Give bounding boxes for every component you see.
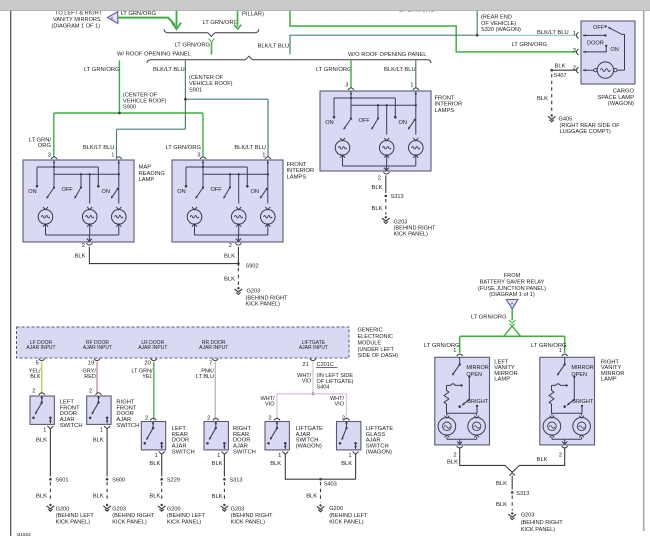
svg-text:VEHICLE ROOF): VEHICLE ROOF) <box>123 99 167 105</box>
svg-text:G200: G200 <box>56 506 70 512</box>
splice S601 <box>49 478 52 481</box>
svg-text:2: 2 <box>82 243 85 249</box>
svg-text:BLK: BLK <box>496 502 507 508</box>
svg-text:2: 2 <box>207 416 210 422</box>
svg-text:READING: READING <box>139 171 166 177</box>
svg-text:1: 1 <box>278 453 281 459</box>
svg-text:(DIAGRAM 1 of 1): (DIAGRAM 1 of 1) <box>489 292 535 298</box>
wire LT GRN/ORG second drop with arrow <box>236 11 238 27</box>
wire WHT/VIO split to both liftgate switches <box>277 394 347 420</box>
svg-text:BLK: BLK <box>36 493 47 499</box>
ground G200 (behind left kick panel) LF <box>49 504 51 506</box>
svg-text:S601: S601 <box>55 478 68 484</box>
svg-text:OPEN: OPEN <box>466 372 482 378</box>
svg-text:1: 1 <box>154 453 157 459</box>
svg-text:OFF: OFF <box>62 187 74 193</box>
splice S320 <box>476 34 479 37</box>
ground G203 (behind right kick panel) vanity <box>511 512 513 514</box>
left rear door ajar switch <box>141 422 165 450</box>
svg-text:S403: S403 <box>324 481 337 487</box>
svg-text:VEHICLE ROOF): VEHICLE ROOF) <box>189 81 233 87</box>
svg-text:LT GRN/ORG: LT GRN/ORG <box>203 20 239 26</box>
svg-text:(DIAGRAM 1 OF 1): (DIAGRAM 1 OF 1) <box>52 23 101 29</box>
svg-text:FRONT: FRONT <box>435 95 455 101</box>
svg-text:(WAGON): (WAGON) <box>608 101 634 107</box>
svg-text:RED: RED <box>84 374 96 380</box>
wire BLK/LT BLU to splice S320 <box>290 11 477 55</box>
svg-text:BLK: BLK <box>36 437 47 443</box>
svg-text:ORG: ORG <box>38 143 52 149</box>
svg-text:19: 19 <box>88 360 94 366</box>
svg-text:INTERIOR: INTERIOR <box>435 102 463 108</box>
svg-text:BLK: BLK <box>537 457 548 463</box>
svg-text:2: 2 <box>342 416 345 422</box>
wire LT GRN/ORG to splice S900 and lamp pins <box>118 60 120 113</box>
svg-text:LT BLU: LT BLU <box>196 374 214 380</box>
svg-text:LT GRN/ORG: LT GRN/ORG <box>175 43 211 49</box>
svg-text:SPACE LAMP: SPACE LAMP <box>597 95 634 101</box>
svg-text:VIO: VIO <box>302 378 312 384</box>
svg-text:PILLAR): PILLAR) <box>242 12 264 18</box>
ground G405 <box>551 114 553 116</box>
svg-text:INTERIOR: INTERIOR <box>287 168 315 174</box>
ground G203 (behind right kick panel) for map lamps <box>237 287 239 289</box>
GEM pin connectors 5 / 19 / 20 / 7 / 21 <box>39 359 45 361</box>
svg-text:BLK/LT BLU: BLK/LT BLU <box>537 30 569 36</box>
svg-text:2: 2 <box>378 175 381 181</box>
svg-text:OPEN: OPEN <box>571 372 587 378</box>
svg-text:BLK: BLK <box>270 461 281 467</box>
generic electronic module (GEM) <box>17 327 350 358</box>
svg-text:W/ ROOF OPENING PANEL: W/ ROOF OPENING PANEL <box>117 52 192 58</box>
svg-text:MAP: MAP <box>139 165 152 171</box>
splice S313 (roof lamp) <box>385 195 388 198</box>
svg-text:(BEHIND RIGHT: (BEHIND RIGHT <box>521 520 564 526</box>
svg-text:20: 20 <box>144 360 150 366</box>
svg-text:OFF: OFF <box>593 25 605 31</box>
svg-text:G203: G203 <box>247 288 261 294</box>
svg-text:KICK PANEL): KICK PANEL) <box>56 519 91 525</box>
svg-text:A: A <box>111 15 114 20</box>
svg-text:S900: S900 <box>123 105 136 111</box>
svg-text:ELECTRONIC: ELECTRONIC <box>358 334 393 340</box>
map reading lamp unit <box>23 160 134 242</box>
svg-text:2: 2 <box>89 388 92 394</box>
svg-text:BLK: BLK <box>447 459 458 465</box>
svg-text:7: 7 <box>209 360 212 366</box>
svg-text:(RIGHT REAR SIDE OF: (RIGHT REAR SIDE OF <box>560 123 621 129</box>
svg-text:VIO: VIO <box>265 401 275 407</box>
svg-text:VANITY MIRRORS: VANITY MIRRORS <box>53 17 101 23</box>
svg-text:SIDE OF DASH): SIDE OF DASH) <box>358 353 399 359</box>
splice S600 <box>106 478 109 481</box>
svg-text:BLK: BLK <box>149 461 160 467</box>
svg-text:FRONT: FRONT <box>287 162 307 168</box>
wire LT GRN/ORG from triangle A <box>118 18 177 27</box>
svg-text:LT GRN/ORG: LT GRN/ORG <box>121 11 157 17</box>
svg-text:BLK: BLK <box>75 254 86 260</box>
svg-text:1: 1 <box>410 83 413 89</box>
svg-text:LAMP: LAMP <box>494 377 510 383</box>
svg-text:MIRROR: MIRROR <box>571 365 593 371</box>
svg-text:S229: S229 <box>167 478 180 484</box>
svg-text:LUGGAGE COMPT): LUGGAGE COMPT) <box>560 129 611 135</box>
svg-text:KICK PANEL): KICK PANEL) <box>394 231 429 237</box>
cargo space lamp (wagon) unit <box>581 21 635 84</box>
svg-text:BLK: BLK <box>224 277 235 283</box>
svg-text:1: 1 <box>348 453 351 459</box>
splice S407 <box>550 69 553 72</box>
svg-text:GENERIC: GENERIC <box>358 328 383 334</box>
svg-text:BLK: BLK <box>496 481 507 487</box>
svg-text:5: 5 <box>36 360 39 366</box>
splice S313 (doors) <box>223 478 226 481</box>
splice S901 <box>184 98 187 101</box>
svg-text:ON: ON <box>28 189 36 195</box>
svg-text:S407: S407 <box>554 73 567 79</box>
svg-text:2: 2 <box>453 453 456 459</box>
svg-text:2: 2 <box>32 388 35 394</box>
splice S900 <box>118 112 121 115</box>
liftgate ajar switch (wagon) <box>265 422 289 450</box>
wire BLK roof lamp to splice S313 <box>385 176 387 194</box>
svg-text:S313: S313 <box>391 194 404 200</box>
svg-text:KICK PANEL): KICK PANEL) <box>329 519 364 525</box>
svg-text:(BEHIND LEFT: (BEHIND LEFT <box>329 513 368 519</box>
svg-text:3: 3 <box>345 83 348 89</box>
svg-text:3: 3 <box>573 48 576 54</box>
svg-text:AJAR INPUT: AJAR INPUT <box>299 345 328 351</box>
svg-text:S320 (WAGON): S320 (WAGON) <box>481 27 521 33</box>
svg-text:AJAR INPUT: AJAR INPUT <box>138 345 167 351</box>
cargo lamp bulb <box>597 62 613 78</box>
svg-text:S901: S901 <box>189 87 202 93</box>
svg-text:(BEHIND RIGHT: (BEHIND RIGHT <box>231 513 274 519</box>
svg-text:BLK: BLK <box>212 494 223 500</box>
svg-text:KICK PANEL): KICK PANEL) <box>112 519 147 525</box>
svg-text:BRIGHT: BRIGHT <box>572 399 593 405</box>
right rear door ajar switch <box>204 422 228 450</box>
brace merging LT GRN/ORG feeds <box>164 29 259 36</box>
svg-text:OFF: OFF <box>359 118 371 124</box>
svg-text:ON: ON <box>251 189 259 195</box>
svg-text:21: 21 <box>302 362 308 368</box>
svg-text:BLK/LT BLU: BLK/LT BLU <box>83 145 115 151</box>
svg-text:BLK: BLK <box>93 493 104 499</box>
svg-text:SWITCH: SWITCH <box>116 423 139 429</box>
svg-text:BLK: BLK <box>224 254 235 260</box>
svg-text:AJAR INPUT: AJAR INPUT <box>83 345 112 351</box>
wire LT GRN/ORG drop from top edge with arrow <box>175 11 178 27</box>
right front door ajar switch <box>87 396 111 424</box>
splice S403 <box>319 478 322 481</box>
svg-text:(CENTER OF: (CENTER OF <box>189 75 224 81</box>
svg-text:BLK/LT BLU: BLK/LT BLU <box>258 44 290 50</box>
ground G200 (behind left kick panel) LR <box>161 504 163 506</box>
front interior lamps unit (console) <box>172 160 283 242</box>
svg-text:AJAR INPUT: AJAR INPUT <box>199 345 228 351</box>
svg-text:S404: S404 <box>317 385 330 391</box>
svg-text:2: 2 <box>229 243 232 249</box>
svg-text:LAMP: LAMP <box>139 177 155 183</box>
svg-text:KICK PANEL): KICK PANEL) <box>246 302 281 308</box>
svg-text:BLK: BLK <box>30 374 41 380</box>
right vanity mirror lamp <box>540 357 595 445</box>
svg-text:BLK: BLK <box>341 461 352 467</box>
svg-text:1: 1 <box>217 453 220 459</box>
svg-text:BLK: BLK <box>372 185 383 191</box>
svg-text:G203: G203 <box>112 506 126 512</box>
svg-text:BRIGHT: BRIGHT <box>467 399 488 405</box>
svg-text:S313: S313 <box>229 478 242 484</box>
front interior lamps unit (w/o roof opening panel) <box>320 91 431 171</box>
svg-text:I41553: I41553 <box>17 532 31 537</box>
svg-text:AJAR INPUT: AJAR INPUT <box>26 345 55 351</box>
svg-text:DOOR: DOOR <box>587 41 604 47</box>
svg-text:3: 3 <box>48 152 51 158</box>
svg-text:OF VEHICLE): OF VEHICLE) <box>481 21 516 27</box>
svg-text:BLK: BLK <box>149 493 160 499</box>
svg-text:(BEHIND LEFT: (BEHIND LEFT <box>167 513 206 519</box>
svg-text:ON: ON <box>177 189 185 195</box>
svg-text:KICK PANEL): KICK PANEL) <box>167 519 202 525</box>
svg-text:S600: S600 <box>112 478 125 484</box>
svg-text:W/O ROOF OPENING PANEL: W/O ROOF OPENING PANEL <box>348 52 427 58</box>
ground G203 (behind right kick panel) RR <box>223 504 225 506</box>
svg-text:CARGO: CARGO <box>613 89 635 95</box>
ground G203 (behind right kick panel) roof lamp <box>385 216 387 218</box>
svg-text:(FUSE JUNCTION PANEL): (FUSE JUNCTION PANEL) <box>478 286 546 292</box>
svg-text:BLK/LT BLU: BLK/LT BLU <box>153 67 185 73</box>
connector triangle A from battery saver relay <box>506 300 518 309</box>
svg-text:1: 1 <box>43 428 46 434</box>
svg-text:1: 1 <box>100 428 103 434</box>
svg-text:ON: ON <box>325 120 333 126</box>
svg-text:LAMPS: LAMPS <box>435 108 455 114</box>
wire LT GRN/ORG relay feed splitting to both vanity lamps <box>511 309 513 321</box>
brace alternatives with / without roof opening panel <box>147 56 431 63</box>
svg-text:LT GRN/ORG: LT GRN/ORG <box>165 145 201 151</box>
svg-text:SWITCH: SWITCH <box>172 450 195 456</box>
svg-text:LT GRN/ORG: LT GRN/ORG <box>471 315 507 321</box>
svg-text:(BEHIND LEFT: (BEHIND LEFT <box>56 513 95 519</box>
wire LT GRN/ORG merged net stub <box>209 39 215 43</box>
svg-text:(BEHIND RIGHT: (BEHIND RIGHT <box>112 513 155 519</box>
svg-text:A: A <box>511 301 514 306</box>
svg-text:2: 2 <box>268 416 271 422</box>
svg-text:VIO: VIO <box>335 401 345 407</box>
wire BLK/LT BLU to front interior lamps pin 1 <box>415 60 417 88</box>
svg-text:YEL: YEL <box>142 374 152 380</box>
svg-text:BATTERY SAVER RELAY: BATTERY SAVER RELAY <box>480 279 545 285</box>
ground G200 (behind left kick panel) liftgate <box>319 504 321 506</box>
svg-text:BLK: BLK <box>555 64 566 70</box>
svg-text:(REAR END: (REAR END <box>481 15 512 21</box>
svg-text:TO LEFT & RIGHT: TO LEFT & RIGHT <box>55 10 103 16</box>
splice S404 <box>312 393 315 396</box>
svg-text:BLK/LT BLU: BLK/LT BLU <box>234 145 266 151</box>
svg-text:G405: G405 <box>559 116 573 122</box>
svg-text:LAMPS: LAMPS <box>287 175 307 181</box>
wire BLK liftgate switches join to splice S403 <box>285 454 355 479</box>
svg-text:KICK PANEL): KICK PANEL) <box>521 527 556 533</box>
svg-text:OFF: OFF <box>211 187 223 193</box>
connector triangle A to left &amp; right vanity mirrors <box>108 12 118 24</box>
svg-text:ON: ON <box>399 120 407 126</box>
svg-text:(WAGON): (WAGON) <box>366 450 392 456</box>
wire BLK vanity lamps join <box>460 447 565 472</box>
svg-text:LAMP: LAMP <box>601 377 617 383</box>
svg-text:G203: G203 <box>521 512 535 518</box>
svg-text:1: 1 <box>453 348 456 354</box>
svg-text:(CENTER OF: (CENTER OF <box>123 92 158 98</box>
svg-text:2: 2 <box>559 453 562 459</box>
svg-text:1: 1 <box>111 152 114 158</box>
svg-text:LT GRN/ORG: LT GRN/ORG <box>512 42 548 48</box>
svg-text:LT GRN/ORG: LT GRN/ORG <box>316 67 352 73</box>
svg-text:(UNDER LEFT: (UNDER LEFT <box>358 347 395 353</box>
svg-text:SWITCH: SWITCH <box>233 450 256 456</box>
svg-text:BLK: BLK <box>372 206 383 212</box>
svg-text:2: 2 <box>145 416 148 422</box>
left front door ajar switch <box>30 396 54 424</box>
liftgate glass ajar switch (wagon) <box>337 422 361 450</box>
svg-text:SWITCH: SWITCH <box>60 423 83 429</box>
svg-text:KICK PANEL): KICK PANEL) <box>231 519 266 525</box>
svg-text:S902: S902 <box>246 263 259 269</box>
svg-text:S313: S313 <box>516 491 529 497</box>
wire LT GRN/ORG feed to cargo space lamp <box>290 11 576 52</box>
splice S229 <box>160 478 163 481</box>
svg-text:1: 1 <box>262 152 265 158</box>
svg-text:LT GRN/ORG: LT GRN/ORG <box>84 67 120 73</box>
svg-text:1: 1 <box>573 31 576 37</box>
svg-text:1: 1 <box>559 348 562 354</box>
splice S902 <box>237 262 240 265</box>
svg-text:BLK: BLK <box>537 96 548 102</box>
svg-text:3: 3 <box>197 152 200 158</box>
wire BLK map+console lamps to splice S902 <box>89 247 238 267</box>
svg-text:BLK: BLK <box>93 437 104 443</box>
wire BLK/LT BLU to splice S901 and lamp pins <box>117 60 269 157</box>
wire LT GRN/ORG to front interior lamps pin 3 <box>350 60 352 88</box>
svg-text:BLK/LT BLU: BLK/LT BLU <box>384 67 416 73</box>
svg-text:BLK: BLK <box>306 493 317 499</box>
svg-text:(BEHIND RIGHT: (BEHIND RIGHT <box>246 296 289 302</box>
svg-text:G203: G203 <box>231 506 245 512</box>
svg-text:MIRROR: MIRROR <box>466 365 488 371</box>
svg-text:(WAGON): (WAGON) <box>296 444 322 450</box>
svg-text:G200: G200 <box>329 506 343 512</box>
svg-text:ON: ON <box>610 47 618 53</box>
splice S313 (vanity lamps) <box>511 491 514 494</box>
connector at vanity ground join <box>509 473 515 476</box>
ground G203 (behind right kick panel) RF <box>106 504 108 506</box>
svg-text:ON: ON <box>102 189 110 195</box>
svg-text:MODULE: MODULE <box>358 340 382 346</box>
left vanity mirror lamp <box>435 357 490 445</box>
svg-text:G200: G200 <box>167 506 181 512</box>
svg-text:BLK: BLK <box>212 461 223 467</box>
svg-text:FROM: FROM <box>504 273 521 279</box>
